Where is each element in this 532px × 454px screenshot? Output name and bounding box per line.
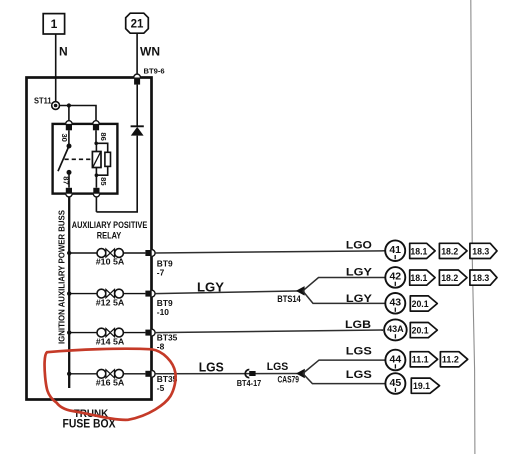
connector label BT9 -10	[157, 298, 173, 317]
svg-text:-7: -7	[157, 268, 165, 278]
connector pin 43	[385, 293, 405, 314]
wire LGO to connector 41	[155, 251, 385, 253]
svg-text:LGS: LGS	[346, 369, 372, 381]
wire junction to resistor top	[96, 143, 108, 152]
tag 20.1 (row 43)	[410, 296, 437, 311]
fuse #12	[97, 289, 123, 298]
tag 18.2 (row 41)	[439, 243, 467, 258]
inline connector BT4-17	[245, 370, 255, 378]
svg-text:WN: WN	[140, 45, 160, 59]
svg-text:45: 45	[390, 377, 402, 389]
fuse #14	[97, 328, 123, 337]
wire BT35-5 trunk LGS	[155, 373, 303, 375]
fuse #10	[97, 249, 123, 258]
svg-text:FUSE BOX: FUSE BOX	[63, 419, 116, 431]
svg-text:85: 85	[99, 177, 108, 186]
trunk fuse box outline	[27, 78, 152, 400]
svg-text:86: 86	[99, 132, 108, 140]
wire BT9-6 to diode	[136, 85, 138, 127]
wire branch to connector 43	[303, 291, 386, 304]
svg-text:LGS: LGS	[199, 361, 224, 375]
svg-text:20.1: 20.1	[412, 326, 430, 337]
wire lower dot to pin 87	[68, 172, 70, 187]
resistor R1	[105, 152, 111, 166]
pin 87	[66, 188, 72, 197]
tag 11.2 (row 44)	[440, 352, 467, 367]
wire fuse 3 to connector	[123, 332, 145, 334]
wire buss to fuse 4	[69, 373, 97, 375]
svg-text:LGB: LGB	[345, 319, 371, 331]
tag 18.3 (row 42)	[470, 270, 497, 285]
wire BT9-10 trunk LGY	[155, 291, 303, 294]
svg-text:18.1: 18.1	[410, 246, 428, 257]
svg-text:21: 21	[131, 19, 144, 31]
coil bottom junction	[95, 173, 99, 177]
svg-text:BT9-6: BT9-6	[144, 66, 165, 75]
svg-text:RELAY: RELAY	[97, 230, 122, 240]
junction buss tap 2	[67, 291, 71, 295]
svg-text:LGY: LGY	[346, 267, 373, 279]
svg-text:LGS: LGS	[267, 361, 289, 373]
connector pin 44	[385, 350, 405, 371]
svg-text:1: 1	[51, 17, 58, 31]
svg-text:44: 44	[390, 353, 402, 365]
connector BT9-10	[145, 290, 155, 297]
wire buss to fuse 3	[69, 332, 97, 334]
junction buss tap 4	[67, 372, 71, 376]
junction buss tap 1	[67, 251, 71, 255]
splice BTS14	[296, 286, 305, 296]
svg-text:42: 42	[389, 271, 401, 283]
svg-text:18.3: 18.3	[472, 273, 489, 284]
terminal octagon 21	[126, 13, 149, 33]
svg-text:-5: -5	[157, 383, 165, 393]
connector pin 41	[385, 240, 405, 261]
connector label BT35 -8	[157, 333, 178, 352]
svg-text:ST11: ST11	[34, 96, 52, 106]
connector BT9-6	[134, 74, 141, 85]
relay coil K1	[92, 152, 101, 168]
svg-text:BT4-17: BT4-17	[237, 378, 262, 388]
junction buss tap 3	[67, 330, 71, 334]
connector label BT35 -5	[157, 374, 178, 393]
wire diode to coil return	[96, 136, 137, 212]
wire N from terminal 1	[55, 34, 57, 102]
junction above pin 30	[67, 103, 71, 107]
wire buss to fuse 1	[69, 252, 97, 254]
pin 85	[93, 188, 99, 197]
wire ST11 to pin 86	[60, 106, 97, 122]
splice CAS79	[296, 369, 305, 379]
svg-text:11.2: 11.2	[442, 355, 459, 366]
tag 11.1 (row 44)	[410, 352, 437, 367]
svg-text:N: N	[59, 45, 68, 59]
tag 20.1 (row 43A)	[410, 323, 437, 338]
wire to pin 85	[95, 175, 97, 188]
svg-text:41: 41	[389, 244, 401, 256]
wire fuse 1 to connector	[123, 252, 145, 254]
wire pin 85 down	[95, 197, 97, 212]
tag 18.1 (row 41)	[410, 243, 435, 258]
pin 30	[66, 121, 72, 131]
svg-text:#14 5A: #14 5A	[96, 337, 125, 346]
wire junction to pin 30	[68, 106, 70, 122]
coil top junction	[94, 142, 98, 146]
svg-text:LGO: LGO	[346, 239, 372, 251]
svg-text:BTS14: BTS14	[277, 294, 301, 304]
red hand-drawn circle annotation	[45, 349, 176, 420]
fuse #16	[97, 369, 123, 378]
wire fuse 2 to connector	[123, 293, 145, 295]
wire branch to connector 42	[303, 278, 386, 291]
wire branch to connector 45	[303, 374, 386, 384]
svg-text:18.2: 18.2	[441, 246, 458, 257]
wire ignition auxiliary power buss	[68, 197, 70, 388]
scan artifact vertical line	[471, 0, 475, 454]
svg-text:LGS: LGS	[346, 345, 372, 357]
connector pin 45	[385, 373, 405, 394]
connector label BT9 -7	[157, 259, 173, 278]
svg-text:-10: -10	[157, 307, 169, 317]
tag 18.2 (row 42)	[439, 270, 467, 285]
wire junction to coil	[95, 143, 97, 151]
pin 86	[93, 121, 99, 131]
wire LGB to connector 43A	[155, 330, 383, 333]
svg-text:AUXILIARY POSITIVE: AUXILIARY POSITIVE	[72, 220, 148, 230]
wire fuse 4 to connector	[123, 373, 145, 375]
svg-text:87: 87	[61, 176, 70, 184]
wire branch to connector 44	[303, 360, 386, 373]
svg-text:LGY: LGY	[346, 293, 373, 305]
tag 18.3 (row 41)	[470, 243, 497, 258]
svg-text:18.1: 18.1	[410, 273, 428, 284]
svg-text:#12 5A: #12 5A	[96, 298, 125, 307]
switch arm	[58, 148, 68, 172]
connector pin 43A	[384, 319, 407, 340]
tag 18.1 (row 42)	[410, 270, 435, 285]
svg-text:LGY: LGY	[197, 279, 224, 294]
svg-text:#16 5A: #16 5A	[96, 379, 125, 388]
svg-text:11.1: 11.1	[412, 355, 430, 366]
wire coil bottom	[95, 168, 97, 176]
splice stud ST11	[52, 102, 60, 110]
label AUXILIARY POSITIVE RELAY	[72, 220, 148, 240]
wire pin 86 to coil junction	[95, 130, 97, 143]
svg-text:#10 5A: #10 5A	[96, 258, 125, 267]
wire WN from terminal 21	[136, 33, 138, 74]
switch pivot dot	[67, 144, 72, 149]
switch contact from pin 30	[68, 130, 70, 146]
terminal box 1	[43, 14, 64, 34]
connector BT35-8	[145, 329, 155, 336]
wire resistor bottom	[96, 166, 107, 175]
switch lower dot	[67, 170, 72, 175]
svg-text:43: 43	[389, 297, 401, 309]
tag 19.1 (row 45)	[411, 378, 439, 393]
connector BT35-5	[145, 370, 155, 377]
svg-text:19.1: 19.1	[413, 381, 431, 392]
svg-text:IGNITION AUXILIARY POWER BUSS: IGNITION AUXILIARY POWER BUSS	[57, 210, 67, 344]
svg-text:18.2: 18.2	[441, 273, 458, 284]
svg-text:20.1: 20.1	[412, 299, 430, 310]
svg-text:30: 30	[60, 133, 69, 141]
wire buss to fuse 2	[69, 293, 97, 295]
svg-text:CAS79: CAS79	[277, 374, 299, 384]
diode D1	[131, 126, 144, 135]
connector pin 42	[385, 267, 405, 288]
auxiliary positive relay box U1	[53, 124, 118, 194]
actuator dashed link	[65, 158, 93, 160]
svg-text:18.3: 18.3	[472, 246, 489, 257]
svg-text:43A: 43A	[387, 324, 404, 334]
connector BT9-7	[145, 250, 155, 257]
